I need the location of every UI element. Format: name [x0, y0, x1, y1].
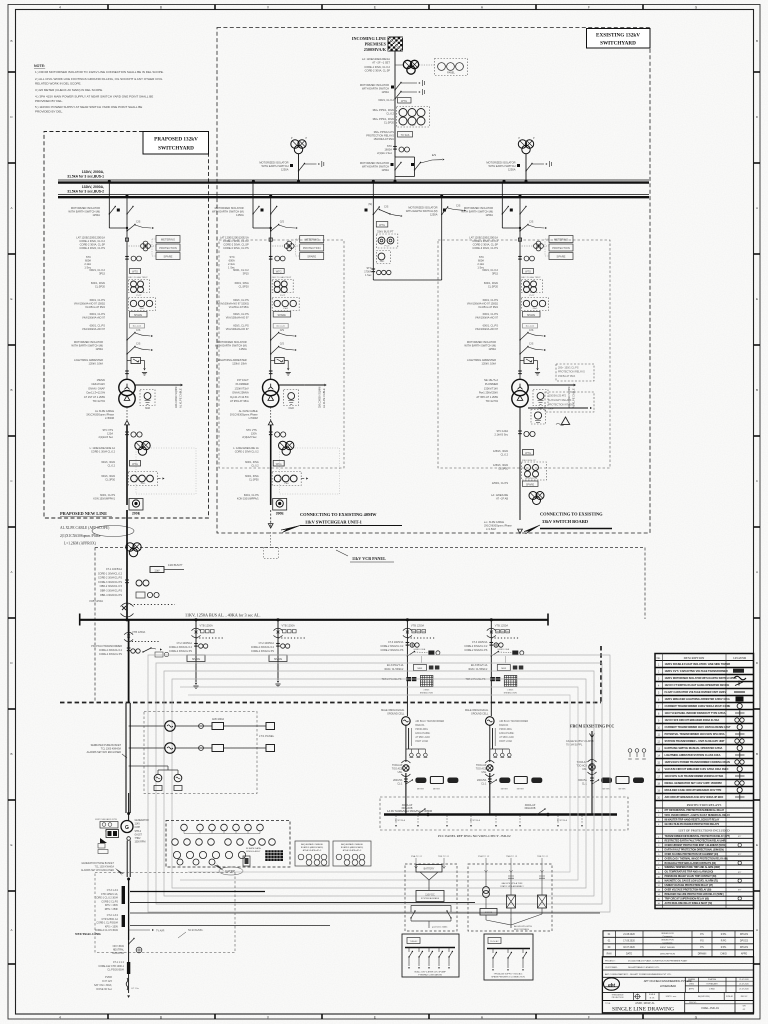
svg-text:CL:3P50: CL:3P50	[105, 479, 115, 482]
svg-text:METERING: METERING	[161, 237, 175, 241]
svg-text:LT/1 PANEL: LT/1 PANEL	[259, 734, 275, 738]
svg-text:PTEMPAX CONSTANTIN: PTEMPAX CONSTANTIN	[418, 974, 442, 977]
svg-text:132 KV CT SWITCH FLOAT GANG OP: 132 KV CT SWITCH FLOAT GANG OPERATED DEV…	[665, 683, 730, 687]
svg-text:SPARE: SPARE	[192, 658, 201, 661]
svg-text:CORE-2 CL:PS: CORE-2 CL:PS	[101, 900, 118, 903]
svg-text:CL:5P20: CL:5P20	[239, 285, 250, 289]
svg-text:POTENTIAL TRANSFORMER 11KV/110: POTENTIAL TRANSFORMER 11KV/110V 3PH 30VA	[665, 732, 725, 736]
11kV spare feeder 2 CT	[281, 644, 285, 648]
svg-text:A: A	[10, 570, 12, 574]
praposed bay lower chain cable sealing end device	[129, 499, 143, 511]
svg-text:SYSTEM A/GRADE: SYSTEM A/GRADE	[421, 897, 440, 900]
svg-text:DRG NO :: DRG NO :	[689, 1002, 698, 1004]
svg-text:4.) 3PH 415V MAIN POWER SUPPL: 4.) 3PH 415V MAIN POWER SUPPLY AT NEAR S…	[35, 95, 153, 99]
svg-text:11kV: 11kV	[154, 569, 160, 572]
svg-text:WTG: WTG	[276, 270, 282, 273]
svg-text:ENCLOSURE:: ENCLOSURE:	[499, 733, 514, 735]
svg-text:Vm/25ms AT 95/A: Vm/25ms AT 95/A	[229, 306, 249, 309]
pcc incomer 1 switch to metering	[407, 652, 414, 657]
svg-text:SPARE: SPARE	[527, 314, 536, 317]
svg-text:E: E	[10, 297, 12, 301]
svg-text:WTG: WTG	[276, 463, 282, 466]
bus coupler right riser	[441, 197, 443, 280]
synchronization panel meters row 3	[173, 851, 180, 858]
bus-2 junction dots	[126, 194, 129, 197]
svg-text:CORE-1 30VA, CL:0.2: CORE-1 30VA, CL:0.2	[472, 239, 498, 243]
svg-text:1250A: 1250A	[430, 213, 438, 217]
svg-text:1250A: 1250A	[281, 168, 289, 172]
svg-text:SINGLE LINE DRAWING: SINGLE LINE DRAWING	[612, 1007, 674, 1013]
drawing number cell	[684, 1001, 686, 1013]
svg-text:VKA/100kVA+NO 97: VKA/100kVA+NO 97	[82, 317, 106, 320]
svg-text:MBX: MBX	[418, 668, 423, 670]
svg-text:C/S: C/S	[456, 204, 461, 208]
svg-text:OBR-2 30VA/CL:0.5: OBR-2 30VA/CL:0.5	[100, 585, 123, 588]
unit-1 feeder bay CT secondary cluster	[287, 241, 292, 246]
unit-3 end arrow	[518, 529, 523, 533]
praposed switchyard dashed boundary	[44, 132, 209, 519]
coupler WTG box	[376, 222, 388, 228]
praposed feeder bay transformer CT	[125, 370, 129, 372]
svg-text:120kV, 10kA: 120kV, 10kA	[232, 362, 247, 366]
UPS EM panel box	[480, 909, 497, 916]
svg-text:PROVIDED BY DEL.: PROVIDED BY DEL.	[35, 99, 63, 103]
11kV spare feeder 1 wire	[195, 620, 197, 682]
pcc incomer 1 cable duct	[405, 725, 407, 749]
svg-text:GROUND CELL: GROUND CELL	[387, 713, 405, 716]
pcc incomer 2 cable duct	[489, 725, 491, 749]
unit-1 feeder bay spare box	[300, 253, 324, 260]
svg-text:STATION TRANSFORMER + UNIT AUX: STATION TRANSFORMER + UNIT AUXILIARY UNI…	[665, 739, 726, 743]
pcc incomer 1 cassette glyphs	[412, 630, 416, 633]
incoming stub wire	[525, 154, 527, 181]
svg-text:E: E	[756, 843, 758, 847]
praposed bay lower chain transformer LV lead	[126, 406, 128, 408]
protection list rows	[655, 837, 754, 839]
svg-text:CORE-3 30VA, CL:PS: CORE-3 30VA, CL:PS	[472, 246, 498, 250]
svg-text:P.S: P.S	[700, 947, 704, 949]
svg-text:A: A	[10, 206, 12, 210]
svg-text:BOARDS (ABM BOARD): BOARDS (ABM BOARD)	[301, 846, 324, 849]
abt logo	[604, 978, 620, 990]
svg-text:2.1kA/3 Sec: 2.1kA/3 Sec	[495, 434, 509, 437]
svg-text:KPS > 150V: KPS > 150V	[105, 904, 118, 907]
svg-text:2.1kA: 2.1kA	[228, 262, 235, 266]
svg-text:CORE-3 30VA, CL:PS: CORE-3 30VA, CL:PS	[223, 246, 249, 250]
svg-text:C/S: C/S	[280, 342, 285, 346]
svg-text:OVERLOAD / THERMAL IMAGE PROTE: OVERLOAD / THERMAL IMAGE PROTECTION RELA…	[665, 857, 728, 860]
svg-text:PbO: PbO	[533, 308, 538, 310]
svg-text:PSA TC #2: PSA TC #2	[411, 855, 423, 858]
svg-text:132KV CVT / CAPACITIVE VOLTAGE: 132KV CVT / CAPACITIVE VOLTAGE TRANSFORM…	[665, 669, 728, 673]
title block scale row	[602, 1000, 753, 1002]
praposed bay lower chain dotted connection region	[136, 448, 196, 494]
svg-text:BC AUX: BC AUX	[526, 325, 535, 328]
svg-text:B: B	[10, 752, 12, 756]
svg-text:A1(841X594): A1(841X594)	[698, 995, 710, 998]
svg-text:150/20kA AT 95/A: 150/20kA AT 95/A	[373, 137, 394, 141]
svg-text:PbO: PbO	[380, 261, 385, 263]
svg-text:METER: METER	[603, 789, 611, 791]
svg-text:L=1.2KM (APPROX): L=1.2KM (APPROX)	[64, 542, 97, 546]
svg-text:CORE-2 30VA/CL:PS: CORE-2 30VA/CL:PS	[251, 650, 274, 653]
svg-text:132kV/T1kV: 132kV/T1kV	[484, 386, 498, 390]
svg-text:BUCHHOLZ TRIP AND ALARM CONTAC: BUCHHOLZ TRIP AND ALARM CONTACTS (63)	[665, 862, 717, 865]
svg-text:3X1CX630 SQMM: 3X1CX630 SQMM	[174, 387, 178, 408]
svg-text:600/1, CL:0.2: 600/1, CL:0.2	[233, 268, 249, 272]
incoming stub wire	[298, 154, 300, 181]
unit-1 feeder bay line CT	[270, 236, 272, 255]
bus coupler left isolator	[365, 209, 368, 212]
svg-text:132kV/11kV: 132kV/11kV	[91, 382, 105, 386]
svg-text:ALIGN UPS WITH: ALIGN UPS WITH	[514, 925, 532, 928]
svg-text:86 MASTER TRIP HAND RESET LOCK: 86 MASTER TRIP HAND RESET LOCKOUT RELAY	[665, 818, 720, 821]
pcc incomer 2 breaker boxes row	[490, 780, 497, 784]
svg-text:CL:0.2: CL:0.2	[251, 465, 259, 468]
svg-text:Dyn11 Z=12.5%: Dyn11 Z=12.5%	[230, 395, 249, 399]
unit-1 feeder continues arrow	[270, 510, 272, 527]
svg-text:WITH EARTH SWITCH (M): WITH EARTH SWITCH (M)	[212, 210, 244, 214]
svg-text:3P15: 3P15	[99, 272, 106, 276]
praposed feeder bay line isolator 1	[127, 333, 135, 341]
svg-text:ONAN 25MVA: ONAN 25MVA	[232, 391, 249, 395]
svg-text:KON 150/UMPPA/1: KON 150/UMPPA/1	[237, 498, 259, 501]
svg-text:CL:1: CL:1	[397, 783, 403, 786]
svg-text:R.PG: R.PG	[721, 947, 727, 949]
svg-text:AT 95R LOAD: AT 95R LOAD	[499, 736, 514, 739]
svg-text:PVDR: PVDR	[105, 976, 112, 979]
battery DC box	[416, 891, 444, 902]
svg-text:RPN < 250F: RPN < 250F	[105, 908, 119, 911]
svg-text:CL:5P20: CL:5P20	[488, 285, 499, 289]
svg-text:70 KVA SUPPL: 70 KVA SUPPL	[566, 744, 583, 747]
PCC bus	[384, 813, 617, 815]
svg-text:E/M PA: E/M PA	[485, 911, 493, 914]
svg-text:BATTERY: BATTERY	[424, 868, 435, 871]
praposed bay NGR dashed box	[140, 390, 155, 406]
svg-text:HYDERABAD: HYDERABAD	[660, 984, 676, 988]
svg-text:ACST20LA: ACST20LA	[395, 819, 406, 822]
svg-text:E/S: E/S	[432, 153, 436, 157]
svg-text:GROUND CELL: GROUND CELL	[471, 713, 489, 716]
svg-text:CORE-2 30VA/CL:PS: CORE-2 30VA/CL:PS	[99, 653, 122, 656]
svg-text:Vm/25ms AT 95/A: Vm/25ms AT 95/A	[85, 306, 105, 309]
svg-text:LAT 120E/120E/120E/1A: LAT 120E/120E/120E/1A	[76, 236, 105, 240]
svg-text:PROTECTION AT 95/A: PROTECTION AT 95/A	[548, 403, 574, 406]
svg-text:CT-2 1-3:2: CT-2 1-3:2	[107, 914, 119, 917]
svg-text:360+ PPS/1, 30VA: 360+ PPS/1, 30VA	[372, 108, 394, 112]
metering panel dashed box top right	[419, 64, 434, 66]
svg-text:UNL: UNL	[582, 768, 587, 771]
synchronization panel dashed box	[166, 821, 290, 868]
svg-text:Comments: Comments	[663, 935, 673, 938]
svg-text:WITH EARTH SWITCH (M): WITH EARTH SWITCH (M)	[461, 210, 493, 214]
132kV bus-1	[58, 179, 649, 181]
svg-text:3P15: 3P15	[243, 272, 250, 276]
svg-text:120kV, 10kA: 120kV, 10kA	[89, 362, 104, 366]
cable PT star cluster	[126, 543, 134, 551]
svg-text:WITH EARTH SWITCH (M): WITH EARTH SWITCH (M)	[215, 344, 247, 348]
svg-text:600/1, 30VA: 600/1, 30VA	[235, 281, 249, 285]
generator feed cable dual line	[125, 703, 127, 813]
svg-text:DPGCS: DPGCS	[740, 934, 749, 936]
svg-text:132kV, 2000A,: 132kV, 2000A,	[82, 170, 104, 174]
UPS input drops	[485, 858, 487, 872]
svg-text:TD=12.5%: TD=12.5%	[486, 399, 499, 403]
svg-text:5.) 110VDC POWER SUPPLY AT NE: 5.) 110VDC POWER SUPPLY AT NEAR SWITCH Y…	[35, 105, 142, 109]
svg-text:C/S: C/S	[529, 342, 534, 346]
svg-text:IN RATE DATA: IN RATE DATA	[246, 847, 261, 850]
svg-text:132KV BREAKER LIGHTNING ARREST: 132KV BREAKER LIGHTNING ARRESTER 120KV 1…	[665, 697, 730, 701]
svg-text:P-CT: P-CT	[384, 246, 390, 248]
svg-text:LIGHTNING ARRESTER: LIGHTNING ARRESTER	[74, 358, 103, 362]
svg-text:2X1,600 KVA DG PLANT, CONSTRUC: 2X1,600 KVA DG PLANT, CONSTRUCTION PREMI…	[628, 959, 688, 962]
svg-text:B: B	[10, 39, 12, 43]
svg-text:RAN: RAN	[607, 952, 612, 955]
svg-text:P.S: P.S	[700, 941, 704, 943]
LT transformer 1	[165, 721, 175, 731]
praposed bay lower chain 11kV riser wire	[126, 425, 128, 505]
synchronization panel meters row 2	[172, 839, 179, 846]
svg-text:CL:1: CL:1	[481, 783, 487, 786]
LT aux transformers	[154, 774, 162, 782]
svg-text:CURRENT TRANSFORMER 11KV 100/5: CURRENT TRANSFORMER 11KV 100/5/1A RESIN …	[665, 725, 731, 729]
svg-text:UNL: UNL	[482, 771, 487, 774]
svg-text:1250A: 1250A	[488, 347, 496, 351]
svg-text:1250/1, CL:PS: 1250/1, CL:PS	[492, 482, 509, 485]
svg-text:MOTORIZED ISOLATOR: MOTORIZED ISOLATOR	[259, 161, 288, 165]
svg-text:P-CT: P-CT	[136, 295, 142, 297]
svg-text:P-CT: P-CT	[410, 125, 416, 127]
svg-text:CURRENT TRANSFORMER 132KV 600/: CURRENT TRANSFORMER 132KV 600/1A MULTI C…	[665, 704, 731, 708]
svg-text:OVER FLUXING PROTECTION V/F EL: OVER FLUXING PROTECTION V/F ELEMENT (24)	[665, 853, 719, 856]
svg-text:ACST20LA: ACST20LA	[557, 819, 568, 822]
unit-3 feeder bay line isolator 1	[520, 333, 528, 341]
svg-text:WTG: WTG	[401, 99, 407, 103]
svg-text:150/5A AT 95/A: 150/5A AT 95/A	[558, 375, 575, 378]
legend rows section 1	[655, 667, 754, 669]
svg-text:TD=12.5%: TD=12.5%	[93, 399, 106, 403]
11kV spare feeder 2 spare box	[269, 655, 287, 662]
svg-text:UNL: UNL	[398, 771, 403, 774]
svg-text:PSM TC #2: PSM TC #2	[478, 856, 490, 858]
svg-text:VCB 1250A: VCB 1250A	[89, 599, 103, 603]
incoming bypass loop	[395, 156, 415, 158]
svg-text:CORE-2 30VA/CL:PS: CORE-2 30VA/CL:PS	[380, 649, 403, 652]
DCDB box	[402, 934, 459, 977]
svg-text:WTG: WTG	[525, 270, 531, 273]
svg-text:02.07.2020: 02.07.2020	[623, 947, 635, 949]
svg-text:TO SAS: TO SAS	[401, 134, 410, 137]
svg-text:600A: 600A	[478, 259, 484, 263]
svg-text:VKA/100kVA+NO 97: VKA/100kVA+NO 97	[226, 317, 250, 320]
legend table	[655, 654, 754, 909]
svg-text:SPARE: SPARE	[557, 254, 566, 258]
svg-text:GBC 70 GAS TRUP: GBC 70 GAS TRUP	[272, 276, 292, 279]
svg-text:TITLE :: TITLE :	[605, 1003, 612, 1005]
svg-text:TUB AC: TUB AC	[410, 940, 418, 943]
unit-3 bay relay dashed boxes	[556, 364, 594, 381]
svg-text:DESCRIPTION: DESCRIPTION	[684, 656, 705, 660]
svg-text:DATE: DATE	[626, 952, 632, 955]
svg-text:C/S: C/S	[136, 342, 141, 346]
protection relays header	[655, 800, 754, 802]
unit-3 warning triangle	[561, 417, 569, 424]
svg-text:0.8Pf: 0.8Pf	[135, 827, 141, 829]
svg-text:STATIC UPS ASSEMBLY: STATIC UPS ASSEMBLY	[500, 885, 524, 888]
ACDB outgoing switches	[492, 949, 494, 954]
svg-text:600/1, CL:0.2: 600/1, CL:0.2	[482, 268, 498, 272]
svg-text:600/1, CL:0.2: 600/1, CL:0.2	[89, 268, 105, 272]
svg-text:CORE-1 30VA CL:0.2: CORE-1 30VA CL:0.2	[91, 451, 116, 454]
svg-text:11KV/415V AUX TRANSFORMER 2000: 11KV/415V AUX TRANSFORMER 2000KVA DYN11	[665, 774, 724, 778]
svg-text:8.37 Ω/X: 8.37 Ω/X	[102, 980, 112, 983]
neutral earth lead	[128, 974, 130, 993]
CT bar 3	[127, 962, 130, 974]
svg-text:TDR-2 PhA/CL:PS: TDR-2 PhA/CL:PS	[382, 678, 402, 681]
svg-text:A: A	[756, 206, 758, 210]
pcc incomer 2 LV terminal stubs	[490, 748, 510, 750]
svg-text:GBC 70 GAS TRUP: GBC 70 GAS TRUP	[521, 276, 541, 279]
svg-text:(150/5A) 25.4F2: (150/5A) 25.4F2	[548, 395, 567, 398]
svg-text:CUSTOMER :: CUSTOMER :	[605, 967, 618, 969]
battery charger dashed box	[405, 864, 457, 931]
svg-text:4: 4	[59, 1015, 61, 1019]
svg-text:VKA/100kVA+NO 97: VKA/100kVA+NO 97	[475, 328, 499, 331]
svg-text:MOTORIZED ISOLATOR: MOTORIZED ISOLATOR	[360, 83, 389, 87]
svg-text:11KV VCB PANEL INDOOR DRAWOUT: 11KV VCB PANEL INDOOR DRAWOUT TYPE 1250A	[665, 711, 726, 715]
svg-text:OBR-4 30VA/CL:PS: OBR-4 30VA/CL:PS	[100, 594, 123, 597]
praposed feeder bay CT secondary cluster	[143, 241, 148, 246]
pcc incomer 2 LT transformer circle	[486, 717, 495, 726]
svg-text:AIR CIRCUIT BREAKER ACB 415V 4: AIR CIRCUIT BREAKER ACB 415V 4000A 4P ED…	[665, 795, 724, 799]
svg-text:132kV, 2000A,: 132kV, 2000A,	[82, 185, 104, 189]
svg-text:TV AVR: TV AVR	[156, 930, 165, 933]
svg-text:A: A	[756, 570, 758, 574]
svg-text:200E: 200E	[132, 512, 141, 516]
svg-text:WITH EARTH SWITCH (M): WITH EARTH SWITCH (M)	[68, 210, 100, 214]
svg-text:CORE-2 30VA/CL:PS: CORE-2 30VA/CL:PS	[98, 577, 122, 580]
svg-text:PROTECTION: PROTECTION	[303, 246, 321, 250]
svg-text:CT-3 100/5/1A: CT-3 100/5/1A	[472, 641, 488, 644]
svg-text:GENERATOR: GENERATOR	[135, 819, 150, 822]
svg-text:OVER VOLTAGE PROTECTION RELAY: OVER VOLTAGE PROTECTION RELAY (59)	[665, 888, 712, 891]
svg-text:MBX: MBX	[501, 668, 506, 670]
bus-1 junction dots	[108, 180, 111, 183]
svg-text:PROJECT :: PROJECT :	[605, 960, 616, 962]
incoming line pothead symbol	[388, 37, 403, 51]
pcc incomer 2 CT	[494, 643, 498, 647]
svg-text:BC AUX: BC AUX	[133, 325, 142, 328]
svg-text:CORE-2 30VA/CL:PS: CORE-2 30VA/CL:PS	[169, 650, 192, 653]
svg-text:CT-3 100/5/1A: CT-3 100/5/1A	[388, 641, 404, 644]
132kV bus-2	[58, 194, 649, 196]
svg-text:AIR BULK TRANSFORMER: AIR BULK TRANSFORMER	[499, 720, 528, 723]
pcc incomer 2 wire upper	[490, 620, 492, 716]
svg-text:30VA / CL:5P&0.2: 30VA / CL:5P&0.2	[384, 668, 404, 671]
unit-3 feeder bay tap from bus-2 wire	[519, 197, 521, 231]
svg-text:ACB 1600A: ACB 1600A	[212, 718, 224, 721]
svg-text:A: A	[756, 928, 758, 932]
pcc incomer 1 interlock hatch box	[406, 677, 411, 681]
svg-text:WINDING TEMPERATURE TRIP AND A: WINDING TEMPERATURE TRIP AND ALARM (26W)	[665, 866, 721, 869]
border zone ticks top	[107, 5, 109, 10]
praposed feeder bay metering box	[156, 236, 180, 243]
svg-text:BC AUX: BC AUX	[276, 325, 285, 328]
svg-text:1250A: 1250A	[236, 213, 244, 217]
svg-text:110V DC: 110V DC	[425, 894, 435, 897]
svg-text:LIGHTNING ARRESTER: LIGHTNING ARRESTER	[467, 358, 496, 362]
svg-text:AUTO RECLOSE RELAY SINGLE SHOT: AUTO RECLOSE RELAY SINGLE SHOT (79)	[665, 902, 713, 905]
svg-text:METER: METER	[619, 789, 627, 791]
svg-text:CL:0.2: CL:0.2	[386, 112, 394, 116]
LT feeder 1 CT and breaker	[175, 725, 212, 727]
svg-text:G: G	[125, 825, 129, 831]
svg-text:ABQJA WAVE CHANGE: ABQJA WAVE CHANGE	[301, 843, 323, 846]
unit-3 feeder bay line isolator 2	[520, 347, 528, 355]
praposed feeder bay tap from bus-1 wire	[108, 183, 110, 220]
svg-text:PbO: PbO	[285, 483, 290, 485]
border zone ticks left	[8, 71, 16, 73]
svg-text:33kV BUS PT: 33kV BUS PT	[377, 230, 394, 234]
existing pcc terminal stubs	[629, 753, 631, 757]
existing switchyard label box	[587, 29, 651, 49]
svg-text:WITH EARTH SWITCH: WITH EARTH SWITCH	[362, 165, 389, 169]
svg-text:11kV SWITCHGEAR UNIT-1: 11kV SWITCHGEAR UNIT-1	[305, 520, 362, 525]
incoming WTG box	[398, 98, 412, 104]
svg-text:600/1, CL:PS: 600/1, CL:PS	[233, 324, 249, 328]
svg-text:1 Sec: 1 Sec	[365, 274, 372, 277]
NCR panel dashed box	[95, 873, 235, 953]
svg-text:CL:5P20: CL:5P20	[384, 121, 395, 125]
svg-text:CORE-2 30VA, CL:5P: CORE-2 30VA, CL:5P	[365, 69, 391, 73]
svg-text:21.07.2020: 21.07.2020	[739, 988, 748, 990]
svg-text:PLOMMER: PLOMMER	[485, 382, 498, 386]
svg-text:WTG: WTG	[132, 463, 138, 466]
svg-text:390E: 390E	[276, 512, 285, 516]
svg-text:2(1)kA 1 Sec: 2(1)kA 1 Sec	[377, 151, 393, 155]
svg-text:LIGHTNING ARRESTER: LIGHTNING ARRESTER	[218, 358, 247, 362]
unit-1 bay NGR dashed box	[284, 390, 299, 406]
svg-text:DPGCS: DPGCS	[740, 947, 749, 949]
svg-text:AT 95R LOAD: AT 95R LOAD	[415, 736, 430, 739]
svg-text:STB-2: STB-2	[135, 831, 142, 833]
svg-text:VKA/100kVA+NO 97: VKA/100kVA+NO 97	[475, 317, 499, 320]
svg-text:UNDER VOLTAGE PROTECTION RELAY: UNDER VOLTAGE PROTECTION RELAY (27)	[665, 884, 714, 887]
svg-text:LA: 120E/120E/120E/1A: LA: 120E/120E/120E/1A	[362, 57, 390, 61]
svg-text:LIGHTNING ARRESTER STATION CLA: LIGHTNING ARRESTER STATION CLASS 10KA	[665, 753, 721, 757]
svg-text:SPARE: SPARE	[274, 658, 283, 661]
svg-text:CL:1: CL:1	[582, 783, 588, 786]
svg-text:NEUTRAL: NEUTRAL	[113, 949, 125, 952]
svg-text:ABT CONSULTANT/EPC : DEL APT: ABT CONSULTANT/EPC : DEL APT POWER ENGIN…	[605, 973, 672, 976]
bus coupler C/S switch	[379, 210, 390, 215]
svg-text:PREMISES: PREMISES	[365, 42, 387, 47]
svg-text:CORE-1 30VA, CL:0.2: CORE-1 30VA, CL:0.2	[79, 239, 105, 243]
svg-text:PbO: PbO	[140, 308, 145, 310]
svg-text:ATDA 3.8 ATB+AT+3: ATDA 3.8 ATB+AT+3	[343, 849, 362, 852]
svg-text:1.) FROM MOTORISED ISOLATOR T: 1.) FROM MOTORISED ISOLATOR TO 132KV LIN…	[35, 70, 164, 74]
pcc incomer 2 cassette glyphs	[496, 630, 500, 633]
svg-text:600A: 600A	[229, 259, 235, 263]
svg-text:87T DIFFERENTIAL PROTECTION NU: 87T DIFFERENTIAL PROTECTION NUMERICAL RE…	[665, 809, 725, 812]
svg-text:EC-8 PhA/T-1A: EC-8 PhA/T-1A	[387, 664, 404, 667]
svg-text:Comments: Comments	[663, 941, 673, 944]
svg-text:STC: STC	[387, 144, 392, 148]
svg-text:2.1kA: 2.1kA	[84, 262, 91, 266]
LT feeder 2 CT and breaker	[175, 747, 212, 749]
pcc incomer 2 aux contact boxes	[497, 665, 510, 671]
